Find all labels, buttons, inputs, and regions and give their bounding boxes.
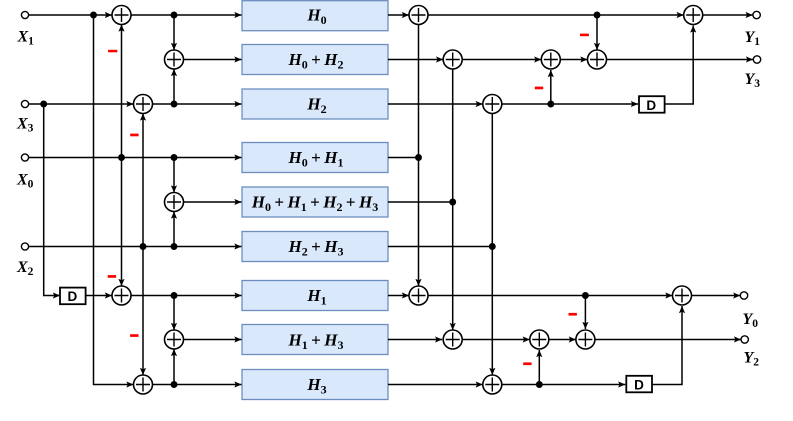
node row6-A5 branch: [171, 243, 178, 250]
delay D1 (left): [60, 288, 86, 305]
adder B8a: [443, 330, 462, 349]
filter block H1: [242, 281, 388, 311]
adder B8b: [530, 330, 549, 349]
wire row7 branch down to adder B8c (minus): [584, 296, 586, 330]
filter block H3: [242, 370, 388, 400]
input terminal X3: [21, 100, 28, 107]
adder A1: [112, 6, 131, 25]
wire block H0+H2 to adder B2a: [388, 59, 443, 61]
svg-text:X0: X0: [16, 172, 34, 191]
delay D3 (bottom right): [626, 376, 652, 393]
adder B1: [409, 6, 428, 25]
wire adder A7 to block H1: [131, 295, 242, 297]
svg-text:Y3: Y3: [745, 71, 761, 90]
wire X0 branch down to adder A7 (minus): [121, 158, 123, 287]
wire row6 branch up to adder A5: [173, 212, 175, 247]
minus at adder B8b input: [523, 362, 531, 365]
wire X0 branch up to adder A1 (minus): [121, 25, 123, 158]
wire adder F0 to output Y0: [692, 295, 741, 297]
wire adder B3 to delay D2: [502, 103, 638, 105]
node row7-A8 branch: [171, 292, 178, 299]
input terminal X1: [21, 11, 28, 18]
wire adder A1 to block H0: [131, 14, 242, 16]
wire block H1+H3 to adder B8a: [388, 339, 442, 341]
wire adder A3 to block H2: [153, 103, 242, 105]
delay D2 (top right): [639, 96, 665, 113]
adder A7: [112, 286, 131, 305]
svg-text:Y0: Y0: [743, 311, 759, 330]
wire row1 branch down to adder A2: [173, 15, 175, 50]
filter block H0+H2: [242, 45, 388, 75]
adder A9: [134, 375, 153, 394]
filter block H2+H3: [242, 232, 388, 262]
node row9-B8b branch: [536, 381, 543, 388]
output terminal Y0: [740, 292, 747, 299]
node row3-B2b branch: [547, 101, 554, 108]
adder F1: [684, 6, 703, 25]
svg-text:D: D: [634, 378, 644, 393]
minus at adder A1 input: [108, 50, 117, 53]
wire block H0+H1 to node V1: [388, 157, 419, 159]
node row3-A2 branch: [171, 101, 178, 108]
svg-text:X1: X1: [17, 29, 35, 48]
wire block H1 to adder B7: [388, 295, 409, 297]
wire X3 branch down to delay D1: [44, 104, 60, 296]
wire row3 branch up to adder A2: [173, 69, 175, 104]
wire block H2+H3 to node V3: [388, 246, 492, 248]
wire block H0+H1+H2+H3 to node V2: [388, 201, 453, 203]
node row4-B1 branch: [415, 154, 422, 161]
wire adder A5 to block H0+H1+H2+H3: [184, 201, 242, 203]
svg-text:Y1: Y1: [745, 29, 761, 48]
filter block H0+H1: [242, 143, 388, 173]
wire delay D1 to adder A7: [86, 295, 113, 297]
minus at adder A3 input: [130, 134, 138, 137]
wire delay D2 to adder F1: [665, 26, 693, 105]
wire X2 branch up to adder A3 (minus): [142, 114, 144, 247]
wire adder F1 to output Y1: [703, 14, 753, 16]
filter block H0+H1+H2+H3: [242, 187, 388, 217]
svg-text:Y2: Y2: [744, 350, 760, 369]
wire block H3 to adder B9: [388, 384, 483, 386]
wire adder B8a to adder B8b: [462, 339, 530, 341]
adder A5: [165, 193, 184, 212]
svg-text:X2: X2: [16, 259, 34, 278]
wire X2 to block H2+H3: [29, 246, 242, 248]
node row5-B2a branch: [449, 199, 456, 206]
node row4-A1 branch: [118, 154, 125, 161]
svg-text:X3: X3: [16, 116, 34, 135]
wire row4 branch down to adder A5: [173, 158, 175, 193]
svg-text:D: D: [646, 98, 656, 113]
adder F0: [673, 286, 692, 305]
wire row7 branch down to adder A8: [173, 296, 175, 331]
minus at adder A7 input: [108, 275, 116, 278]
node row4-A5 branch: [171, 154, 178, 161]
wire block H0 to adder B1: [388, 14, 409, 16]
node row1-B2c branch: [594, 12, 601, 19]
svg-text:H2 + H3: H2 + H3: [288, 237, 344, 259]
minus at adder B8c input: [569, 313, 577, 316]
wire adder B9 to delay D3: [502, 384, 626, 386]
node row7-B8c branch: [582, 292, 589, 299]
node row6-A3 branch: [140, 243, 147, 250]
adder B8c: [576, 330, 595, 349]
wire row9 branch up to adder B8b (minus): [538, 350, 540, 385]
adder B3: [483, 95, 502, 114]
minus at adder A9 input: [130, 334, 138, 337]
adder B2b: [541, 50, 560, 69]
input terminal X0: [21, 154, 28, 161]
node row9-A8 branch: [171, 381, 178, 388]
output terminal Y3: [753, 56, 760, 63]
node row3-X3 branch: [40, 101, 47, 108]
wire delay D3 to adder F0: [652, 306, 682, 385]
wire X1 branch down to adder A9: [94, 15, 134, 385]
svg-text:H0 + H1: H0 + H1: [288, 148, 344, 170]
wire adder B2c to output Y3: [607, 59, 754, 61]
wire adder B8c to output Y2: [595, 339, 741, 341]
wire X1 to adder A1: [29, 14, 112, 16]
wire adder B2a to adder B2b: [462, 59, 541, 61]
wire adder B7 to adder F0: [428, 295, 673, 297]
adder A8: [165, 330, 184, 349]
wire adder B2a down to adder B8a: [452, 69, 454, 330]
wire adder B8b to adder B8c: [549, 339, 576, 341]
wire adder B1 down to adder B7: [418, 25, 420, 287]
svg-text:D: D: [68, 289, 78, 304]
wire adder B1 to adder F1: [428, 14, 684, 16]
wire row9 branch up to adder A8: [173, 349, 175, 385]
svg-text:H0 + H2: H0 + H2: [288, 50, 344, 72]
adder B2a: [443, 50, 462, 69]
adder B9: [483, 375, 502, 394]
output terminal Y1: [753, 11, 760, 18]
svg-text:H1 + H3: H1 + H3: [288, 331, 344, 353]
wire adder A8 to block H1+H3: [184, 339, 242, 341]
adder A2: [165, 50, 184, 69]
wire adder B2b to adder B2c: [560, 59, 587, 61]
minus at adder B2b input: [535, 87, 543, 90]
wire X0 to block H0+H1: [29, 157, 242, 159]
adder A3: [134, 95, 153, 114]
output terminal Y2: [741, 336, 748, 343]
wire adder A2 to block H0+H2: [184, 59, 242, 61]
adder B7: [409, 286, 428, 305]
wire block H2 to adder B3: [388, 103, 483, 105]
wire row1 branch down to adder B2c (minus): [596, 15, 598, 50]
node row1-A2 branch: [171, 12, 178, 19]
wire row3 branch up to adder B2b (minus): [550, 70, 552, 104]
filter block H1+H3: [242, 325, 388, 355]
node row6-B3 branch: [489, 243, 496, 250]
wire adder A9 to block H3: [153, 384, 242, 386]
input terminal X2: [21, 243, 28, 250]
filter block H2: [242, 89, 388, 119]
wire adder B3 down to adder B9: [491, 114, 493, 376]
minus at adder B2c input: [580, 34, 589, 37]
adder B2c: [588, 50, 607, 69]
wire X2 branch down to adder A9 (minus): [142, 247, 144, 376]
filter block H0: [242, 1, 388, 31]
node row1-X1 branch: [90, 12, 97, 19]
wire X3 to adder A3: [29, 103, 134, 105]
